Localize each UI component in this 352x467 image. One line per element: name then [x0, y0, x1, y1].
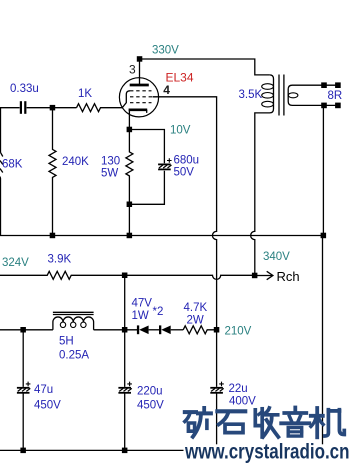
svg-text:340V: 340V: [263, 251, 290, 263]
svg-text:*2: *2: [153, 306, 164, 318]
svg-text:450V: 450V: [137, 399, 164, 411]
svg-text:47V: 47V: [132, 298, 153, 310]
svg-text:3: 3: [129, 62, 136, 76]
svg-text:450V: 450V: [34, 400, 61, 412]
svg-text:3.9K: 3.9K: [48, 253, 72, 265]
svg-text:22u: 22u: [229, 383, 248, 395]
svg-text:2W: 2W: [187, 315, 204, 327]
svg-text:330V: 330V: [152, 44, 179, 56]
svg-text:324V: 324V: [2, 257, 29, 269]
svg-text:4.7K: 4.7K: [184, 302, 208, 314]
svg-text:5W: 5W: [101, 168, 118, 180]
svg-text:8R: 8R: [328, 90, 343, 102]
svg-text:50V: 50V: [174, 166, 195, 178]
svg-text:3.5K: 3.5K: [239, 89, 263, 101]
svg-text:0.33u: 0.33u: [10, 83, 39, 95]
svg-text:1K: 1K: [78, 88, 92, 100]
svg-text:0.25A: 0.25A: [59, 350, 89, 362]
svg-text:130: 130: [101, 156, 120, 168]
svg-text:10V: 10V: [170, 125, 191, 137]
svg-text:220u: 220u: [137, 385, 163, 397]
svg-text:4: 4: [163, 83, 170, 97]
svg-text:400V: 400V: [229, 396, 256, 408]
svg-text:47u: 47u: [34, 384, 53, 396]
svg-text:680u: 680u: [174, 154, 200, 166]
svg-text:240K: 240K: [62, 156, 89, 168]
svg-text:Rch: Rch: [277, 269, 300, 284]
svg-text:68K: 68K: [2, 159, 23, 171]
svg-text:1W: 1W: [132, 310, 149, 322]
svg-text:210V: 210V: [225, 326, 252, 338]
svg-text:5H: 5H: [59, 336, 74, 348]
svg-text:www.crystalradio.cn: www.crystalradio.cn: [184, 439, 349, 463]
